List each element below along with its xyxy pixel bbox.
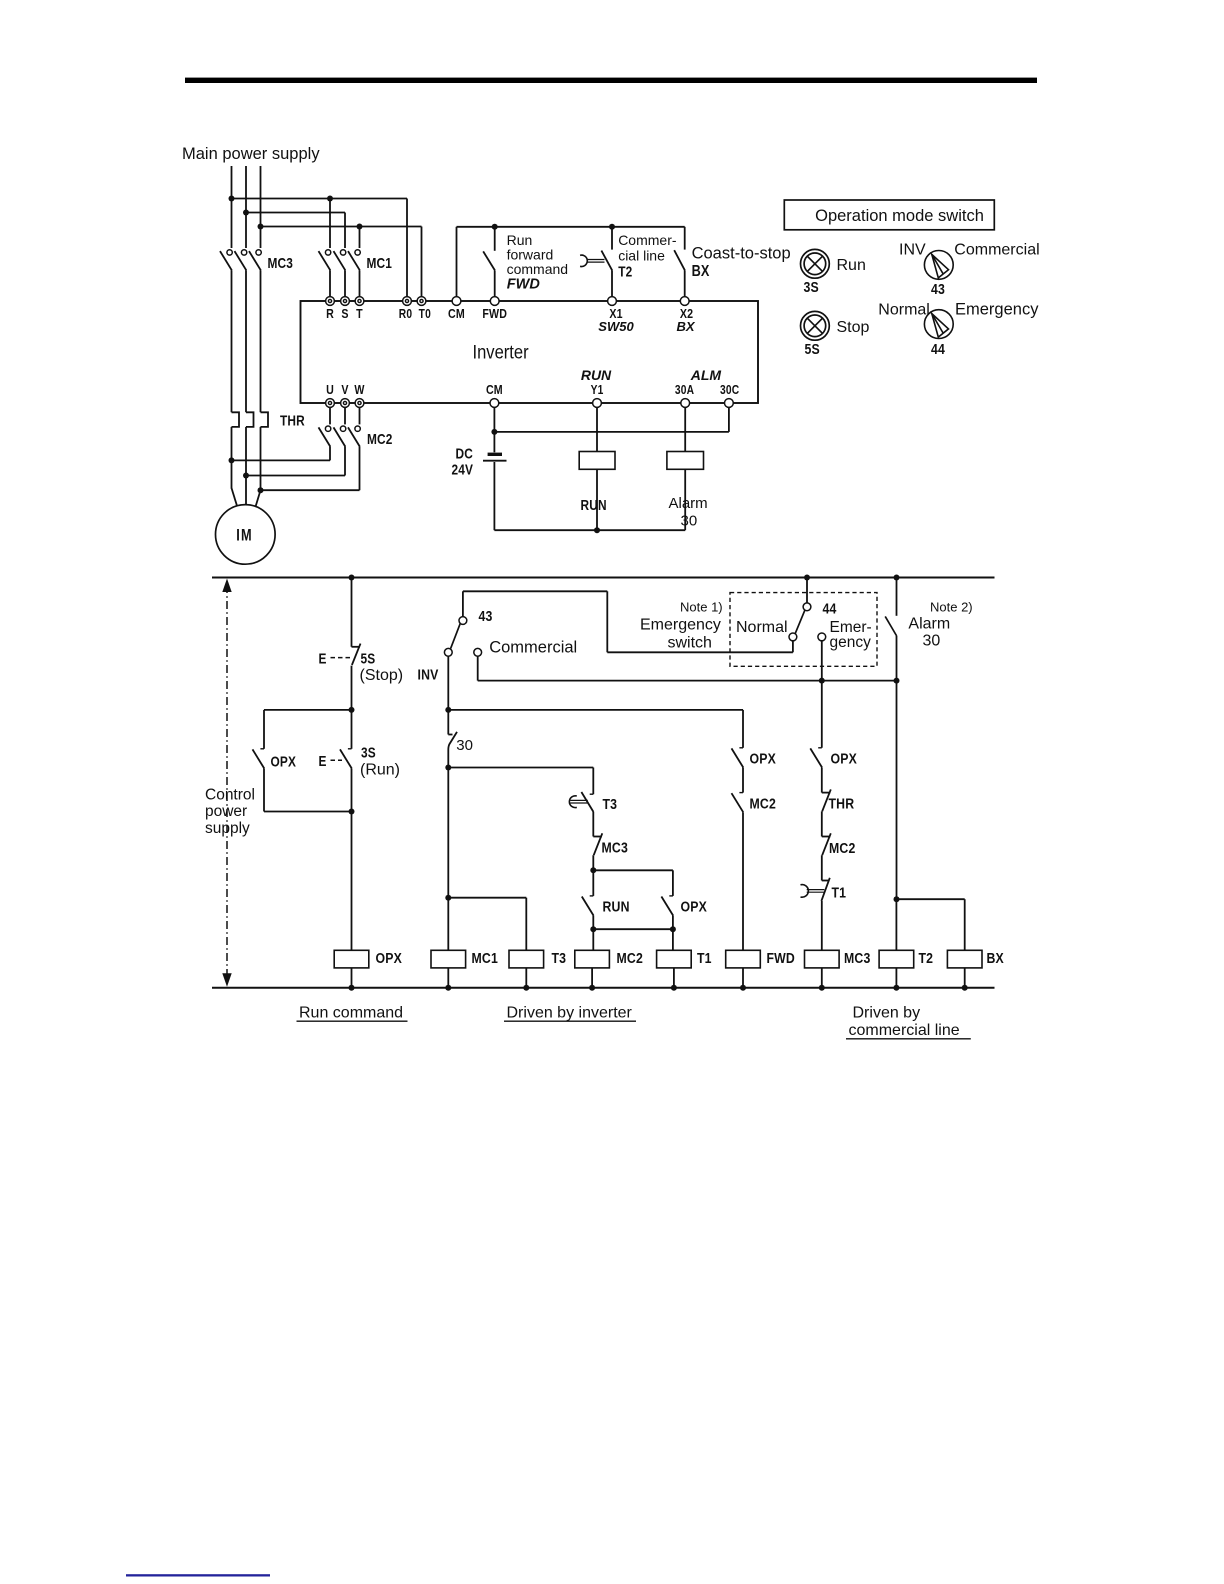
page top rule: [185, 78, 1037, 83]
svg-text:V: V: [341, 382, 348, 397]
relay coil RUN: [596, 407, 598, 451]
node: bus S tap: [243, 210, 249, 216]
svg-text:T2: T2: [919, 950, 934, 966]
svg-text:Emergency: Emergency: [955, 301, 1039, 319]
contactor MC1 pole 1: [325, 250, 330, 255]
timer coil T3: [509, 950, 544, 968]
node: MC3 coil bottom: [819, 985, 825, 991]
node: RUN-OPX join right: [670, 926, 676, 932]
terminal V: [341, 399, 350, 408]
svg-text:43: 43: [931, 281, 945, 297]
svg-text:S: S: [341, 306, 348, 321]
svg-text:T0: T0: [419, 308, 431, 321]
node: rung1 top: [349, 575, 355, 581]
wire: bus S to MC1: [246, 212, 345, 214]
svg-text:commercial line: commercial line: [849, 1022, 960, 1039]
node: rung2 FWD branch: [445, 707, 451, 713]
svg-text:R: R: [326, 306, 334, 321]
svg-text:T: T: [356, 306, 363, 321]
wire: phase2 to MC2 junction: [245, 427, 247, 505]
wire: 43 commercial down: [477, 656, 479, 680]
svg-text:switch: switch: [668, 635, 712, 652]
terminal CM bottom: [490, 399, 499, 408]
contactor MC2 pole 3: [359, 407, 361, 424]
alarm contact 30 NC (rung2): [447, 710, 449, 735]
terminal CM top: [452, 297, 461, 306]
node: alarm rail tap: [894, 575, 900, 581]
wire: phase R drop: [231, 166, 233, 248]
wire: motor lead 1: [232, 488, 238, 507]
wire: phase S drop: [245, 166, 247, 248]
contactor MC2 pole 1: [329, 407, 331, 424]
svg-text:MC2: MC2: [750, 795, 777, 811]
svg-text:THR: THR: [280, 412, 305, 428]
svg-text:R0: R0: [399, 308, 412, 321]
node: bus R taps: [229, 196, 235, 202]
contactor MC2 pole 2: [344, 407, 346, 424]
svg-text:Alarm: Alarm: [669, 495, 708, 512]
node: MC2-3 junction: [258, 487, 264, 493]
relay coil OPX: [334, 950, 369, 968]
control rail bottom: [212, 987, 995, 989]
svg-text:RUN: RUN: [603, 898, 630, 914]
wire: CM down + 30C link: [493, 407, 495, 452]
node: T2 coil bottom: [893, 985, 899, 991]
node: alarm-commercial join: [894, 678, 900, 684]
timer contact T3 NO on-delay: [569, 796, 576, 808]
svg-text:RUN: RUN: [581, 497, 607, 513]
wire: bus R to R0: [232, 198, 408, 200]
svg-text:Control: Control: [205, 787, 255, 804]
relay coil MC1: [431, 950, 466, 968]
svg-text:power: power: [205, 803, 247, 820]
svg-text:INV: INV: [899, 242, 926, 259]
node: BX coil bottom: [962, 985, 968, 991]
svg-text:MC2: MC2: [617, 950, 644, 966]
svg-text:CM: CM: [486, 382, 503, 397]
wire: CM-FWD-X1-X2 top bus: [456, 227, 458, 297]
svg-text:Inverter: Inverter: [473, 341, 529, 363]
svg-text:FWD: FWD: [507, 276, 541, 292]
svg-text:supply: supply: [205, 820, 250, 837]
svg-text:INV: INV: [418, 666, 440, 682]
svg-text:T3: T3: [603, 796, 618, 812]
terminal 30C: [725, 399, 734, 408]
svg-text:Commercial: Commercial: [954, 242, 1039, 259]
selector switch 44: [924, 310, 953, 339]
thermal relay THR heater 2: [246, 412, 254, 427]
svg-text:BX: BX: [987, 950, 1005, 966]
terminal T0: [417, 297, 426, 306]
svg-text:THR: THR: [829, 795, 855, 811]
node: emergency-commercial join: [819, 678, 825, 684]
contactor MC3 pole 1: [227, 250, 232, 255]
svg-text:FWD: FWD: [482, 306, 507, 321]
svg-text:forward: forward: [507, 246, 554, 262]
selector 43 common wire: [462, 591, 464, 616]
thermal relay THR heater 1: [232, 412, 240, 427]
svg-text:RUN: RUN: [581, 367, 612, 383]
svg-text:Commer-: Commer-: [618, 232, 677, 248]
svg-text:MC1: MC1: [472, 950, 499, 966]
switch FWD (run fwd cmd): [494, 227, 496, 251]
wire: FWD rung upper: [742, 710, 744, 748]
node: CM-30C tap: [491, 429, 497, 435]
switch BX (coast-to-stop): [684, 227, 686, 250]
node: T1 coil bottom: [671, 985, 677, 991]
svg-text:MC3: MC3: [602, 839, 629, 855]
control power supply arrow: [226, 585, 228, 981]
svg-text:Normal: Normal: [878, 302, 930, 319]
svg-text:T1: T1: [697, 950, 712, 966]
svg-text:Note 1): Note 1): [680, 600, 723, 615]
svg-text:SW50: SW50: [598, 319, 634, 334]
timer coil T1: [672, 929, 674, 950]
contactor MC1 pole 3: [355, 250, 360, 255]
svg-text:E: E: [319, 753, 327, 769]
svg-text:Stop: Stop: [837, 319, 870, 336]
svg-text:IM: IM: [236, 526, 252, 545]
terminal 30A: [681, 399, 690, 408]
svg-text:Run: Run: [837, 257, 866, 274]
svg-text:30: 30: [681, 513, 698, 530]
svg-text:FWD: FWD: [767, 950, 795, 966]
contactor MC3 pole 3: [256, 250, 261, 255]
svg-text:5S: 5S: [805, 341, 820, 357]
wire: rung2 from INV: [447, 656, 449, 710]
selector switch 43: [924, 251, 953, 280]
node: rung1 OPX branch bottom: [349, 809, 355, 815]
svg-text:43: 43: [479, 608, 493, 624]
svg-text:MC2: MC2: [367, 431, 393, 447]
inverter box: [301, 301, 759, 403]
node: bus T taps: [258, 224, 264, 230]
svg-text:OPX: OPX: [271, 753, 297, 769]
node: MC2-1 junction: [229, 457, 235, 463]
wire: OPX branch: [264, 709, 352, 711]
svg-text:Driven by inverter: Driven by inverter: [507, 1005, 633, 1022]
control rail top: [212, 577, 995, 579]
contact 30 NO (alarm): [896, 578, 898, 616]
svg-text:Main power supply: Main power supply: [182, 145, 320, 163]
svg-text:U: U: [326, 382, 334, 397]
wire: FWD rung feed: [448, 709, 743, 711]
svg-text:Y1: Y1: [591, 384, 604, 397]
wire: rung2 lower: [447, 768, 449, 951]
relay coil BX: [947, 950, 982, 968]
contact MC3 NC (interlock): [593, 836, 602, 838]
node: T2-BX branch: [894, 896, 900, 902]
svg-text:44: 44: [823, 600, 837, 616]
svg-text:MC2: MC2: [829, 840, 856, 856]
pushbutton 3S run NO: [351, 710, 353, 749]
terminal W: [355, 399, 364, 408]
wire: RUN-OPX join: [593, 928, 673, 930]
svg-text:ALM: ALM: [690, 367, 722, 383]
node: RUN coil return: [594, 527, 600, 533]
selector 43 contacts: [459, 617, 467, 625]
battery DC 24V: [488, 453, 502, 456]
node: OPX coil bottom: [349, 985, 355, 991]
svg-text:Commercial: Commercial: [489, 639, 577, 657]
contactor MC1 pole 2: [340, 250, 345, 255]
node: rung2 T3 branch: [445, 765, 451, 771]
footer blue rule: [126, 1574, 270, 1576]
wire: BX branch: [897, 898, 965, 900]
thermal relay THR heater 3: [261, 412, 269, 427]
wire: phase3 to MC2 junction: [260, 427, 262, 491]
node: rung1 OPX branch top: [349, 707, 355, 713]
node: 44 rail tap: [804, 575, 810, 581]
svg-text:MC3: MC3: [844, 950, 871, 966]
svg-text:T3: T3: [552, 950, 567, 966]
timer contact T1 NC off-delay: [822, 880, 830, 882]
aux contact OPX (hold): [253, 749, 265, 768]
terminal S: [341, 297, 350, 306]
svg-text:MC1: MC1: [367, 255, 393, 271]
svg-text:44: 44: [931, 341, 945, 357]
svg-text:W: W: [354, 382, 365, 397]
relay coil FWD: [726, 950, 761, 968]
svg-text:BX: BX: [676, 319, 695, 334]
selector 44 common wire: [806, 578, 808, 603]
svg-text:CM: CM: [448, 306, 465, 321]
svg-text:30A: 30A: [675, 384, 694, 397]
wire: T3 coil feed: [448, 897, 526, 899]
pilot lamp Run 3S: [801, 249, 830, 278]
svg-text:30C: 30C: [720, 384, 739, 397]
svg-text:OPX: OPX: [681, 898, 708, 914]
svg-text:Coast-to-stop: Coast-to-stop: [692, 244, 791, 262]
relay coil MC2: [592, 929, 594, 950]
contact OPX NO (FWD rung): [732, 748, 744, 767]
contactor MC3 pole 2: [241, 250, 246, 255]
wire: alarm rung lower: [896, 681, 898, 900]
wire: coil return rail: [494, 529, 685, 531]
terminal R0: [403, 297, 412, 306]
svg-text:30: 30: [456, 737, 473, 754]
svg-text:Normal: Normal: [736, 619, 788, 636]
node: FWD tap: [492, 224, 498, 230]
svg-text:3S: 3S: [361, 744, 376, 760]
svg-text:Emergency: Emergency: [640, 617, 721, 634]
svg-text:(Stop): (Stop): [360, 667, 404, 684]
svg-text:Run command: Run command: [299, 1005, 403, 1022]
wire: MC3 rung upper: [821, 681, 823, 748]
terminal FWD: [490, 297, 499, 306]
contact OPX NO (parallel): [661, 897, 673, 916]
svg-text:T1: T1: [832, 884, 847, 900]
svg-text:cial line: cial line: [618, 247, 665, 263]
wire: rung1 upper: [351, 578, 353, 647]
wire: phase T drop: [260, 166, 262, 248]
node: rung2 T3coil branch: [445, 895, 451, 901]
svg-text:Driven by: Driven by: [853, 1005, 921, 1022]
node: T3 coil bottom: [523, 985, 529, 991]
svg-text:DC: DC: [456, 445, 474, 461]
node: X1 tap: [609, 224, 615, 230]
wire: phase1 to MC2 junction: [231, 427, 233, 489]
terminal T: [355, 297, 364, 306]
wire: bus T to T0: [261, 226, 422, 228]
svg-text:T2: T2: [618, 263, 632, 279]
wire: T3 chain feed: [448, 767, 593, 769]
node: MC2 coil bottom: [589, 985, 595, 991]
node: RUN-OPX join left: [590, 926, 596, 932]
svg-text:Note 2): Note 2): [930, 600, 973, 615]
svg-text:Alarm: Alarm: [908, 616, 950, 633]
contact OPX NO (MC3 rung): [810, 748, 822, 767]
node: MC1 coil bottom: [445, 985, 451, 991]
emergency switch dashed box: [730, 593, 877, 667]
pushbutton 5S stop NC: [352, 646, 361, 648]
operation mode switch box: [784, 200, 994, 230]
node: FWD coil bottom: [740, 985, 746, 991]
timer coil T2: [895, 899, 897, 950]
svg-text:3S: 3S: [804, 279, 819, 295]
svg-text:5S: 5S: [361, 650, 376, 666]
node: MC2-2 junction: [243, 473, 249, 479]
wire: 44 emergency down: [821, 641, 823, 681]
svg-text:gency: gency: [830, 634, 872, 651]
svg-text:command: command: [507, 261, 568, 277]
svg-text:24V: 24V: [452, 461, 474, 477]
relay coil MC3: [805, 950, 840, 968]
terminal Y1: [593, 399, 602, 408]
svg-text:E: E: [319, 650, 327, 666]
contact MC2 NO (FWD rung): [732, 793, 744, 812]
terminal X1: [608, 297, 617, 306]
svg-text:30: 30: [923, 633, 941, 650]
svg-text:OPX: OPX: [376, 950, 403, 966]
motor IM: [216, 505, 276, 565]
timer contact T2 (commercial line): [611, 227, 613, 250]
relay coil Alarm 30: [684, 407, 686, 451]
contact RUN NO: [592, 870, 594, 896]
terminal X2: [680, 297, 689, 306]
svg-text:BX: BX: [692, 263, 710, 280]
contact THR NC: [822, 792, 831, 794]
terminal U: [326, 399, 335, 408]
wire: OPX parallel branch: [593, 869, 673, 871]
pilot lamp Stop 5S: [801, 311, 830, 340]
wire: motor lead 3: [256, 490, 261, 506]
contact MC2 NC (MC3 rung): [822, 836, 831, 838]
terminal R: [326, 297, 335, 306]
svg-text:Operation mode switch: Operation mode switch: [815, 207, 984, 225]
svg-text:(Run): (Run): [360, 762, 400, 779]
node: T3 chain RUN branch: [590, 867, 596, 873]
svg-text:MC3: MC3: [268, 255, 294, 271]
svg-text:OPX: OPX: [831, 750, 858, 766]
svg-text:OPX: OPX: [750, 750, 777, 766]
selector 44 contacts: [803, 603, 811, 611]
